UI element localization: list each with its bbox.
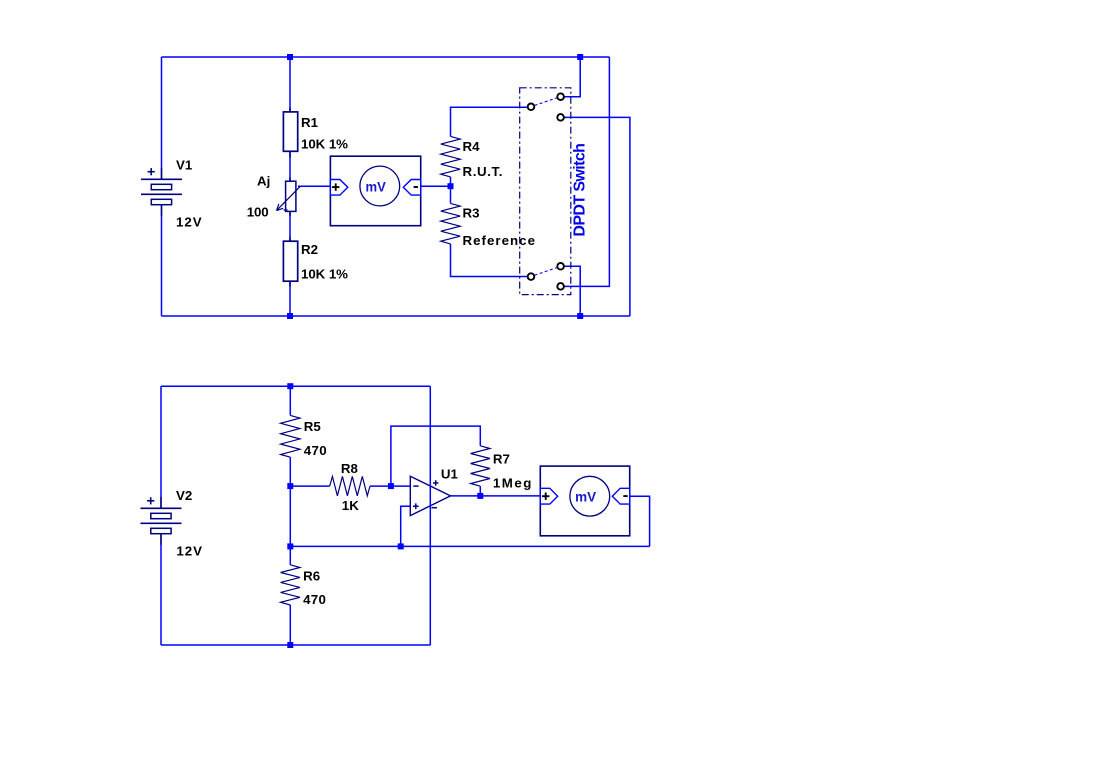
resistor R6 (281, 565, 300, 605)
junction node top rail / divider (bottom circuit) (287, 383, 293, 389)
resistor R1 (283, 108, 297, 158)
resistor R2 (283, 237, 297, 287)
voltmeter M1 dial circle (360, 166, 400, 206)
op-amp U1 positive supply mark (433, 480, 438, 485)
junction node meter minus / R4 R3 (448, 183, 454, 189)
junction node R8 / feedback (388, 483, 394, 489)
voltmeter M2 dial circle (570, 476, 610, 516)
svg-text:U1: U1 (441, 467, 459, 482)
voltmeter M1 minus mark (414, 186, 418, 188)
svg-text:10K 1%: 10K 1% (301, 267, 348, 282)
wire left rail lower (top circuit) (161, 215, 163, 316)
svg-text:1K: 1K (342, 498, 359, 513)
wire right rail (bottom circuit) (429, 386, 431, 645)
voltmeter M1 plus terminal (330, 180, 347, 196)
svg-text:V1: V1 (176, 157, 193, 172)
wire left rail lower (bottom circuit) (160, 544, 162, 645)
junction node top rail / divider (287, 54, 293, 60)
svg-text:R3: R3 (463, 205, 480, 220)
svg-text:R8: R8 (341, 461, 358, 476)
svg-text:R4: R4 (463, 139, 481, 154)
junction node divider / return rail (287, 543, 293, 549)
wire top rail (bottom circuit) (161, 385, 430, 387)
voltmeter M1 minus terminal (403, 180, 420, 196)
DPDT switch throw contact B2 (557, 283, 564, 290)
svg-text:R2: R2 (301, 242, 318, 257)
wire meter minus to node (421, 185, 451, 187)
svg-text:470: 470 (303, 592, 326, 607)
wire op-amp noninverting input drop (401, 506, 411, 546)
voltmeter M2 plus mark (542, 493, 549, 500)
svg-text:100: 100 (247, 204, 269, 219)
wire R5 to R6 segment (289, 457, 291, 565)
svg-text:mV: mV (366, 178, 387, 194)
svg-text:DPDT Switch: DPDT Switch (572, 143, 589, 237)
DPDT switch throw contact A2 (557, 114, 564, 121)
svg-text:mV: mV (575, 489, 597, 505)
wire divider node to R8 (290, 485, 329, 487)
junction node bottom rail / divider (bottom circuit) (287, 642, 293, 648)
svg-text:470: 470 (304, 443, 327, 458)
junction node divider / R8 (287, 483, 293, 489)
wire R4 top to switch pole A (451, 107, 529, 136)
wire bottom rail (bottom circuit) (161, 644, 430, 646)
battery V2 (141, 497, 182, 545)
wire top rail right drop to throw B2 (564, 57, 610, 286)
wire R2 to bottom rail (289, 282, 291, 317)
wire op-amp output to meter M2 (451, 495, 541, 497)
svg-text:R7: R7 (493, 451, 510, 466)
op-amp U1 noninverting mark (413, 503, 419, 509)
wire R8 to op-amp inverting input (370, 485, 410, 487)
wire long return rail (290, 545, 649, 547)
voltmeter M1 plus mark (332, 183, 339, 190)
resistor R3 (441, 203, 460, 244)
svg-text:R1: R1 (301, 115, 319, 130)
resistor R7 (471, 446, 490, 486)
wire meter M2 minus riser (630, 496, 650, 546)
DPDT switch blade B (dashed) (535, 268, 558, 276)
wire bottom rail (top circuit) (162, 315, 630, 317)
wire R3 bottom to switch pole B (451, 244, 529, 277)
junction node bottom rail / divider (287, 313, 293, 319)
wire switch throw B1 to bottom rail (564, 266, 580, 316)
DPDT switch throw contact A1 (557, 93, 564, 100)
DPDT switch throw contact B1 (557, 263, 564, 270)
DPDT switch pole contact A (528, 104, 535, 111)
svg-text:Reference: Reference (463, 233, 536, 248)
wire R6 to bottom rail (289, 605, 291, 645)
svg-text:R5: R5 (304, 419, 322, 434)
potentiometer Aj (277, 178, 301, 216)
voltmeter M2 minus mark (623, 495, 627, 497)
wire feedback up and over to R7 (391, 426, 480, 486)
DPDT switch pole contact B (528, 273, 535, 280)
op-amp U1 (410, 476, 450, 515)
svg-text:Aj: Aj (257, 174, 270, 189)
battery V2 plus mark (147, 497, 154, 504)
svg-text:R.U.T.: R.U.T. (463, 164, 503, 179)
svg-text:12V: 12V (176, 543, 202, 558)
wire pot wiper to meter plus (298, 185, 330, 187)
junction node noninverting input / return rail (398, 543, 404, 549)
resistor R4 (441, 136, 460, 177)
DPDT switch blade A (dashed) (535, 98, 558, 106)
wire top rail (top circuit) (162, 56, 610, 58)
wire middle vertical (divider branch) (289, 57, 291, 111)
voltmeter M2 plus terminal (540, 488, 557, 504)
op-amp U1 negative supply mark (432, 507, 438, 509)
wire left rail upper (bottom circuit) (160, 386, 162, 497)
op-amp U1 inverting mark (413, 485, 418, 487)
wire switch throw A1 to top rail (564, 57, 580, 97)
wire left rail (top circuit) (161, 57, 163, 169)
battery V1 (141, 168, 182, 216)
junction node R7 / output (477, 493, 483, 499)
junction node top rail / throw A1 (577, 54, 583, 60)
svg-text:1Meg: 1Meg (493, 476, 532, 491)
voltmeter M2 box (540, 466, 629, 536)
resistor R5 (281, 415, 300, 457)
svg-text:12V: 12V (176, 214, 202, 229)
battery V1 plus mark (148, 168, 155, 175)
wire divider top to R5 (289, 386, 291, 415)
DPDT switch dashed outline (520, 88, 571, 295)
svg-text:10K 1%: 10K 1% (301, 136, 348, 151)
wire pot Aj to R2 (289, 212, 291, 241)
wire R4 bottom to node (450, 177, 452, 204)
voltmeter M2 minus terminal (612, 488, 629, 504)
wire R1 to pot Aj (289, 152, 291, 181)
wire R7 bottom to output node (479, 486, 481, 496)
svg-text:V2: V2 (176, 488, 192, 503)
svg-text:R6: R6 (303, 569, 320, 584)
resistor R8 (330, 476, 370, 495)
junction node bottom rail / throw B1 (577, 313, 583, 319)
wire switch throw A2 down right side (564, 117, 630, 316)
voltmeter M1 box (330, 156, 420, 226)
